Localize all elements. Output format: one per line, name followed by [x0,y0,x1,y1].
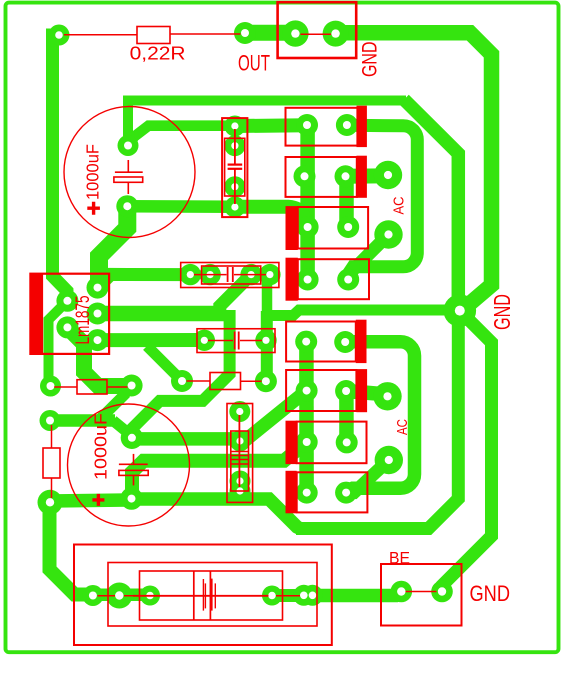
hole of pad D3-1 [304,223,312,231]
pad CONN-OUT [282,20,308,46]
pad R2-R [121,375,143,397]
svg-text:0,22R: 0,22R [130,42,186,63]
wire R4 band diag up to R2 right pad [99,393,127,421]
pad F1-L [140,586,160,606]
pad R3-R [255,370,277,392]
pad U1 pin3 [87,303,109,325]
capacitor C3 inner outline [225,138,245,196]
hole of pad C3 outer bottom [231,203,238,210]
C2 symbol plate top [119,463,148,465]
hole of pad AC2 [384,230,392,238]
pad D4-1 [297,269,319,291]
hole of pad D4-2 [344,276,352,284]
wire mid GND band U1 pin3 to junction [98,306,225,322]
pad D1-1 [296,114,318,136]
wire mid GND band junction to star [263,310,446,316]
hole of pad C1+top [124,142,132,150]
hole of pad CONN-GND [331,29,339,37]
wire C3 bottom pad to D3 pad1 [235,207,308,227]
wire GND top connector to right vertical to star [336,33,492,312]
hole of pad U1 pin5 [94,336,102,344]
C6 symbol plate1 [234,332,236,350]
diode D1 cathode bar [357,106,367,147]
wire bottom band right group [272,589,313,602]
C4 symbol plate2 [232,267,234,282]
hole of pad film-2 [262,337,269,344]
hole of pad C5 inner bottom [236,477,243,484]
hole of pad U1 pin1 [94,284,102,292]
lead R3 right [241,380,262,382]
pad C4-3 [240,264,261,285]
pad OUT-R [49,25,70,46]
hole of pad D8-1 [303,489,311,497]
pad C3 inner top [224,135,245,156]
fuse F1 outline [140,571,283,620]
C1 symbol plate rect [114,177,143,182]
hole of pad D7-2 [343,438,351,446]
pad D8-2 [335,482,357,504]
pad D6-1 [296,380,318,402]
hole of pad F1-L [146,592,154,600]
pad D8-1 [296,482,318,504]
wire R4 top band [50,414,115,427]
svg-text:Lm1875: Lm1875 [73,296,94,345]
fuse F1 side line right [209,571,211,620]
diode D7 outline [297,422,367,464]
hole of pad AC4 [385,456,393,464]
diode D4 outline [298,259,369,299]
diode D6 outline [286,370,356,411]
hole of pad D2-1 [301,172,309,180]
hole of pad C5 inner top [236,437,243,444]
wire R4 band diag down to C2+ [113,421,132,437]
hole of pad D5-2 [341,338,349,346]
C5 lead vertical [238,415,240,487]
C5 symbol line3 [231,459,249,461]
pad U1 pin4 [56,316,78,338]
wire U1 pin5 band to film pad1 [98,333,205,347]
wire V+ rail from OUT-R pad to U1 pin2 [53,35,68,301]
lead X1 b [124,595,146,597]
hole of pad OUT-R [55,31,63,39]
capacitor C5 outer outline [227,404,253,503]
wire U1 pin1 diag to C4 pad1 [98,274,191,287]
hole of pad R4-top [46,417,54,425]
pad D4-2 [337,269,359,291]
lead R1 right [170,33,241,35]
resistor R1 body [137,27,170,44]
pad C4-4 [259,264,280,285]
pad U1 pin2 [56,290,78,312]
wire bottom band to BE pad1 [313,593,402,596]
diode D3 outline [298,207,368,249]
C3 symbol plate2 [228,168,243,170]
diode D6 cathode bar [356,369,367,412]
svg-text:1000uF: 1000uF [83,144,103,200]
wire R3 left pad diagonal up to pin5 band [147,346,182,381]
fuse F1 glyph b [204,583,206,608]
capacitor C4 outer outline [181,263,279,288]
capacitor C5 inner outline [231,431,249,491]
hole of pad D4-1 [304,276,312,284]
wire C2- up-stub row to D7 pad1 [132,442,306,498]
wire lower bridge right column [339,391,354,442]
fuse F1 glyph a [202,579,204,611]
C1 plus sign [87,202,100,215]
wire star down to outer bottom band [296,311,458,529]
diode D2 outline [286,157,357,197]
hole of pad D8-2 [342,489,350,497]
wire bottom band left group [93,589,150,602]
pad film-1 [194,330,215,351]
hole of pad X1-3 [300,592,308,600]
wire junction down under R3 to C2+ [132,310,230,438]
pad F1-R [262,586,282,606]
wire D1 pad2 around corner to D4 pad2 [347,125,417,274]
C1 symbol plate top [115,171,143,173]
lead X1 a [98,595,116,597]
C4 symbol plate1 [227,267,229,282]
fuse F1 glyph c [210,579,213,611]
pad AC1 [374,161,402,189]
hole of pad U1 pin2 [63,297,71,305]
wire lower bridge left column [299,342,314,493]
hole of pad D6-2 [342,387,350,395]
hole of pad AC3 [383,392,391,400]
hole of pad C3 inner top [231,142,238,149]
capacitor C1 outline [64,107,195,238]
hole of pad BE-2 [438,587,446,595]
wire OUT pad to connector pad [245,25,295,41]
hole of pad X1-1 [89,592,97,600]
U1 heatsink tab bar [30,274,43,354]
hole of pad C2+top [128,434,136,442]
hole of pad C5 outer bottom [236,487,243,494]
wire AC1 stub [346,168,389,184]
C3 lead vertical upper [234,129,236,164]
hole of pad GND star [455,306,465,316]
svg-text:GND: GND [489,294,515,330]
wire AC2 diagonal to D4 pad2 [348,235,388,280]
lead R4 bottom [51,478,53,498]
svg-text:GND: GND [358,42,382,78]
lead R4 top [51,425,53,448]
C4 lead right [234,274,266,276]
wire U1 pin4 S-curve to R2 right pad [67,327,131,386]
C3 lead vertical lower [234,169,236,204]
hole of pad R2-L [47,382,55,390]
wire C2- right to outer band [132,499,301,529]
lead R2 right [107,386,128,388]
pad BE-1 [391,581,413,603]
lead K1 pads [301,33,332,35]
pad D7-2 [336,431,358,453]
pad C5 outer bottom [230,481,251,502]
hole of pad CONN-OUT [291,29,299,37]
lead R3 left [187,380,211,382]
pad C4-1 [180,264,201,285]
pad D1-2 [336,114,358,136]
wire AC3 stub [346,391,387,395]
pad C5 outer top [229,401,250,422]
pad U1 pin1 [87,277,109,299]
pad CONN-GND [323,21,349,47]
capacitor C2 outline [68,404,190,526]
svg-text:BE: BE [389,549,410,568]
pad AC2 [374,220,402,248]
diode D8 outline [297,472,368,512]
C1 symbol lead upper [127,160,129,172]
diode D5 outline [286,322,356,362]
hole of pad D1-1 [303,121,311,129]
svg-text:OUT: OUT [238,51,270,76]
hole of pad AC1 [384,171,392,179]
diode D7 cathode bar [286,421,297,464]
hole of pad D6-1 [303,387,311,395]
wire C1- band to C3 top pad [128,126,235,146]
hole of pad D3-2 [344,223,352,231]
pad C5 inner bottom [230,471,251,492]
C3 symbol plate1 [228,164,243,166]
wire R4 bottom pad down to bottom band [50,502,94,594]
svg-text:AC: AC [394,419,411,435]
hole of pad U1 pin4 [63,323,71,331]
pad R2-L [40,376,61,397]
svg-text:AC: AC [391,196,408,214]
pad U1 pin5 [87,329,109,351]
pad C3 inner bottom [224,176,245,197]
pad X1-2 [106,583,132,609]
pad BE-2 [431,581,453,603]
C5 symbol line2 [231,455,249,457]
wire C1+ fat diagonal to U1 pin1 [99,206,127,287]
pad C3 outer top [224,116,245,137]
wire upper bridge right column [339,176,354,227]
pad C1+top [118,135,139,156]
wire star to BE pad2 (GND) [442,312,492,592]
pad X1-3 [293,585,314,606]
wire C1- to top band [128,101,406,146]
pad D2-1 [294,165,316,187]
wire U1 pin2 to R2 left pad [49,301,68,386]
hole of pad U1 pin3 [94,310,102,318]
pad OUT [234,22,256,44]
capacitor C6 outline [197,329,275,353]
pad C2-bottom [120,487,142,509]
svg-text:1000uF: 1000uF [91,413,111,480]
pad C3 outer bottom [224,197,245,218]
hole of pad C3 outer top [231,122,238,129]
lead F1 [133,595,269,597]
pad R3-L [171,370,193,392]
pad R4-top [40,410,61,431]
terminal X1 mid outline [108,563,317,627]
pad D7-1 [296,431,318,453]
hole of pad R2-R [128,382,136,390]
pad D5-2 [334,331,356,353]
wire top band corner down to star [404,100,458,311]
pad GND star [444,294,477,327]
wire C2+ band diag to D6 pad1 [132,391,307,439]
hole of pad R4-bottom [46,498,54,506]
resistor R4 body [43,448,60,478]
hole of pad X1-4 [309,592,317,600]
pad film-2 [255,330,276,351]
hole of pad C5 outer top [236,408,243,415]
capacitor C4 inner outline [202,266,261,284]
pad R4-bottom [38,490,63,515]
wire R4 bottom pad to C2- [50,500,132,501]
hole of pad D2-2 [342,172,350,180]
wire C1+ band to C3 bottom pad [127,200,235,213]
hole of pad film-1 [201,337,208,344]
C5 symbol line1 [231,451,249,453]
hole of pad X1-2 [115,591,123,599]
hole of pad D5-1 [302,338,310,346]
diode D5 cathode bar [356,320,367,363]
wire AC4 diagonal to D8 pad2 [346,460,389,493]
lead BE pads [406,591,437,593]
pad C5 inner top [230,431,251,452]
C6 lead right [240,340,262,342]
hole of pad C4-1 [187,271,194,278]
hole of pad C4-4 [266,271,273,278]
hole of pad R3-L [178,377,186,385]
lead R2 left [54,386,77,388]
pad C2+top [121,427,143,449]
terminal X1 outer outline [74,545,332,646]
wire C4 pad4 stub down to film vertical [267,275,270,312]
diode D2 cathode bar [357,156,367,198]
pad C4-2 [199,264,220,285]
hole of pad D1-2 [343,121,351,129]
resistor R3 body [210,373,241,390]
diode D8 cathode bar [286,471,297,514]
pad D3-2 [337,216,359,238]
wire film pad2 vertical to R3 right pad [261,311,273,381]
wire C3 top pad to D1 pad1 [235,118,307,133]
capacitor C3 outer outline [222,118,247,217]
lead R1 left [64,34,137,36]
hole of pad C2-bottom [128,495,136,503]
pad X1-1 [82,585,103,606]
C6 lead left [208,340,233,342]
pad D3-1 [297,216,319,238]
pad AC3 [373,382,401,410]
C2 symbol plate rect [119,470,148,475]
hole of pad OUT [241,29,249,37]
svg-text:GND: GND [470,581,511,606]
C5 symbol line4 [231,463,249,465]
pad C1-bottom [116,195,138,217]
C2 symbol lead lower [133,475,135,485]
hole of pad F1-R [268,592,276,600]
pad D6-2 [335,380,357,402]
diode D4 cathode bar [286,258,298,301]
hole of pad C4-3 [248,271,255,278]
diode D3 cathode bar [286,206,298,250]
C2 symbol lead upper [133,454,135,464]
hole of pad C4-2 [207,271,214,278]
wire upper bridge left column [300,125,315,279]
op-amp U1 LM1875 outline [30,274,109,354]
fuse F1 side line left [193,571,195,620]
fuse F1 glyph d [214,583,216,608]
C1 symbol lead lower [127,182,129,194]
C6 symbol plate2 [238,332,240,350]
pad X1-4 [302,585,323,606]
C4 lead [194,274,227,276]
pad AC4 [375,446,403,474]
hole of pad D7-1 [303,438,311,446]
wire inner-L around lower bridge [345,342,414,493]
resistor R2 body [77,380,107,394]
connector K1 outline [278,2,357,58]
pad D2-2 [335,165,357,187]
hole of pad R3-R [262,377,270,385]
C2 plus sign [92,494,104,506]
pad D5-1 [295,331,317,353]
hole of pad C1-bottom [123,202,131,210]
wire C4 pad3 diag down-left to mid band junction [220,275,251,313]
hole of pad C3 inner bottom [231,183,238,190]
lead X1 c [276,595,300,597]
hole of pad BE-1 [397,587,405,595]
diode D1 outline [286,108,358,146]
connector BE outline [381,564,462,626]
